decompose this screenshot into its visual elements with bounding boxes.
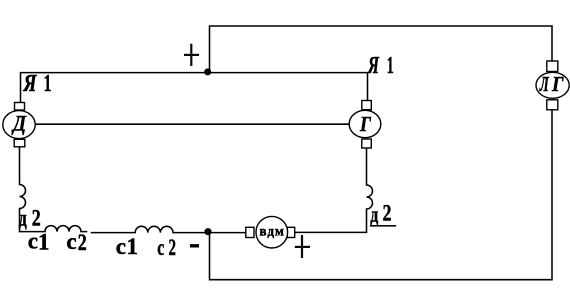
svg-text:вдм: вдм [260,224,286,239]
svg-text:Л: Л [539,72,549,96]
svg-text:1: 1 [127,234,139,259]
svg-text:Я: Я [367,53,380,79]
svg-text:2: 2 [383,201,392,226]
svg-text:1: 1 [38,229,50,254]
svg-text:2: 2 [169,235,177,260]
svg-text:д: д [370,202,378,227]
svg-text:Г: Г [359,112,371,136]
svg-text:д: д [19,206,27,231]
svg-text:Д: Д [11,111,27,136]
svg-text:с: с [157,235,164,260]
svg-text:1: 1 [387,53,394,79]
svg-text:с: с [116,234,126,259]
svg-text:с: с [66,229,76,254]
svg-text:1: 1 [44,71,52,97]
svg-text:2: 2 [78,230,87,255]
svg-text:Я: Я [23,71,38,97]
svg-text:с: с [28,229,38,254]
svg-text:2: 2 [32,206,41,231]
svg-text:Г: Г [551,72,564,96]
